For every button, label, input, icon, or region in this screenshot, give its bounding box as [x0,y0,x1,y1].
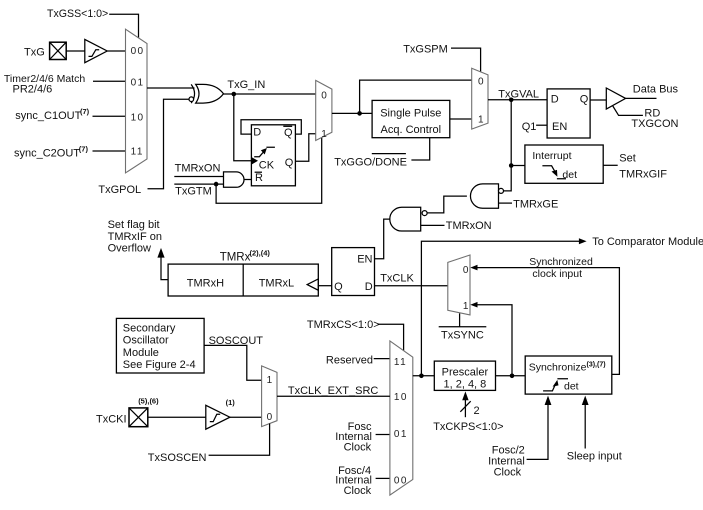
svg-text:Secondary: Secondary [123,322,176,334]
wire buffer to mux M1 input 00 [107,50,125,52]
wire AND G2 output to flip-flop U3 R [244,179,251,181]
AND gate G4 timer enable [390,207,427,231]
svg-text:(7): (7) [79,144,89,153]
wire TxGSPM to mux M3 select [451,48,481,71]
svg-text:TxCLK_EXT_SRC: TxCLK_EXT_SRC [288,385,379,397]
svg-text:Overflow: Overflow [108,243,151,255]
node mux M5 output junction [419,374,424,379]
wire Fosc internal clock to mux M5 input 01 [376,434,390,436]
label Synchronized clock input [529,256,593,280]
wire XOR output TxG_IN to mux M2 input 0 [224,93,316,95]
svg-text:Single Pulse: Single Pulse [380,107,441,119]
wire Fosc/2 clock arrow into synchronize U10 [527,396,552,460]
svg-text:0: 0 [321,91,328,102]
wire SOSCOUT to mux M4 input 1 [204,345,262,380]
wire sync_C1OUT to mux M1 input 10 [93,115,126,117]
mux M6 sync select [448,255,470,315]
wire mux M5 output to prescaler U9 [413,375,435,377]
svg-text:TxCKPS<1:0>: TxCKPS<1:0> [433,421,503,433]
svg-text:(7): (7) [80,107,90,116]
mux M3 single pulse mode select [472,68,488,129]
svg-text:01: 01 [131,77,145,88]
node prescaler output junction [510,374,515,379]
wire TxCLK to comparator module [421,238,586,375]
svg-text:TxGTM: TxGTM [175,186,212,198]
label TMRx(2),(4) [220,249,271,264]
svg-text:TMRxON: TMRxON [446,220,492,232]
svg-text:See Figure 2-4: See Figure 2-4 [123,359,196,371]
pin TxCKI [129,408,148,427]
wire TMRxCS select to mux M5 [378,324,404,351]
svg-text:TMRxGE: TMRxGE [513,198,558,210]
wire TxGVAL down to NAND G3 bubble [504,100,512,191]
node TxGVAL junction [509,98,514,103]
NAND gate G3 gate enable [470,184,503,208]
svg-text:clock input: clock input [532,268,582,280]
svg-text:0: 0 [267,412,274,423]
buffer U12 schmitt TxCKI [206,405,230,429]
svg-text:1: 1 [267,375,274,386]
svg-text:Set flag bit: Set flag bit [108,219,160,231]
svg-text:TMRx: TMRx [220,252,251,264]
svg-text:0: 0 [463,265,470,276]
wire RD TXGCON enable to buffer U7 [613,106,643,115]
svg-text:D: D [551,93,559,105]
pin TxG [50,42,67,59]
wire TxGGO/DONE to Single Pulse U4 [411,138,429,160]
wire TxGTM to mux M2 select [216,137,322,203]
wire TMRxH overflow arrow [157,248,168,280]
wire Reserved to mux M5 input 11 [374,358,390,360]
node mux M2 output junction [357,111,362,116]
label Fosc/2 Internal Clock [488,445,525,479]
svg-text:1: 1 [463,301,470,312]
wire TxSOSCEN select to mux M4 [209,424,270,456]
box U6 interrupt detect [525,145,603,183]
svg-text:det: det [564,381,579,393]
node TxGVAL interrupt branch [509,163,514,168]
svg-text:TxGSS<1:0>: TxGSS<1:0> [47,8,108,20]
open arrow into TMRxL [307,279,318,290]
svg-text:Module: Module [123,347,159,359]
wire synchronize U10 output to mux M6 input 0 [470,265,619,375]
svg-text:EN: EN [357,254,372,266]
label TxSYNC overline [439,327,487,342]
box U4 Single Pulse Acq. Control [372,100,450,137]
svg-text:Prescaler: Prescaler [442,366,489,378]
svg-text:det: det [562,169,577,181]
label Fosc Internal Clock [335,421,372,453]
wire flip-flop U3 Q to mux M2 input 1 [295,134,315,161]
mux M2 gate toggle select [316,80,332,140]
wire flip-flop U5 Q to buffer U7 [590,99,606,101]
svg-text:Q: Q [285,157,294,169]
wire TxGSS select to mux M1 [109,14,138,38]
svg-text:Q1: Q1 [522,121,537,133]
svg-text:TxGSPM: TxGSPM [403,43,448,55]
flip-flop U5 TxGVAL latch [547,89,590,138]
buffer U2 schmitt TxG [85,39,107,62]
svg-text:11: 11 [394,357,407,368]
svg-text:Synchronized: Synchronized [529,256,593,268]
svg-text:Clock: Clock [494,466,522,478]
node TxGTM junction [214,182,219,187]
wire buffer U7 output to data bus [626,97,657,99]
wire mux M4 output TxCLK_EXT_SRC to mux M5 input 10 [277,395,390,397]
svg-text:Set: Set [619,152,636,164]
svg-text:TMRxON: TMRxON [175,162,221,174]
svg-text:TxCLK: TxCLK [380,273,414,285]
svg-text:(3),(7): (3),(7) [587,361,606,368]
label Timer2/4/6 Match PR2/4/6 [4,73,85,95]
svg-text:TxSYNC: TxSYNC [441,330,484,342]
svg-text:TXGCON: TXGCON [631,118,678,130]
wire TxCKI pin to buffer [148,416,206,418]
box U11 secondary oscillator module [116,318,204,373]
wire TxG pin to buffer [66,50,85,52]
svg-text:TxG_IN: TxG_IN [227,79,265,91]
wire latch U8 Q to TMRxL [318,285,331,287]
svg-text:R: R [255,172,263,184]
svg-text:TMRxIF on: TMRxIF on [108,231,162,243]
svg-text:(2),(4): (2),(4) [250,249,271,258]
svg-text:00: 00 [131,46,145,57]
svg-text:Q: Q [334,281,343,293]
wire sync_C2OUT to mux M1 input 11 [93,150,126,152]
wire Timer2/4/6 match to mux M1 input 01 [93,80,126,82]
svg-text:1: 1 [478,114,485,125]
svg-text:EN: EN [552,121,567,133]
svg-text:D: D [253,127,261,139]
wire flip-flop U3 D to Qbar feedback [241,120,301,134]
svg-text:TxSOSCEN: TxSOSCEN [148,452,207,464]
svg-text:01: 01 [394,429,408,440]
mux M5 timer clock source select [390,341,413,495]
svg-text:2: 2 [474,405,480,417]
svg-text:TMRxGIF: TMRxGIF [619,168,667,180]
svg-text:Q: Q [284,127,293,139]
svg-text:Interrupt: Interrupt [532,150,571,162]
wire prescaler output to mux M6 input 1 [470,302,512,376]
svg-text:10: 10 [131,113,145,124]
wire Q1 to flip-flop U5 EN [536,124,547,126]
flip-flop U3 gate toggle [251,125,295,186]
node TxG_IN junction [232,92,237,97]
label RD TXGCON [631,108,678,130]
wire mux M1 output to XOR G1 [147,87,195,89]
svg-text:TxG: TxG [24,47,45,59]
svg-text:Clock: Clock [344,441,372,453]
wire mux M2 output to mux M3 input 0 [360,80,472,113]
svg-text:TMRxL: TMRxL [259,277,294,289]
wire buffer U12 to mux M4 input 0 [230,416,262,418]
XOR gate G1 polarity [189,84,224,103]
svg-text:Synchronize: Synchronize [529,361,587,373]
svg-text:Clock: Clock [344,485,372,497]
svg-text:Reserved: Reserved [326,355,373,367]
svg-text:TMRxCS<1:0>: TMRxCS<1:0> [307,319,380,331]
label sync_C1OUT(7) [15,107,89,122]
wire TxSYNC select to mux M6 [459,313,461,326]
wire NAND G3 output to AND G4 bubble [427,196,467,213]
svg-text:Acq. Control: Acq. Control [381,124,442,136]
svg-text:1: 1 [321,129,328,140]
svg-text:Oscillator: Oscillator [123,335,169,347]
label TxGGO/DONE overline [334,154,407,169]
wire Single Pulse U4 output to mux M3 input 1 [450,118,472,120]
register TMRxH TMRxL [168,264,318,296]
svg-text:TxCKI: TxCKI [96,414,127,426]
svg-text:00: 00 [394,475,408,486]
svg-text:CK: CK [259,159,275,171]
wire mux M2 output to Single Pulse U4 [332,112,372,114]
svg-text:11: 11 [131,147,144,158]
label Set TMRxGIF [619,152,667,180]
wire mux M3 output TxGVAL to flip-flop U5 D [488,99,547,101]
wire TxCKPS select arrow into prescaler [460,391,470,417]
svg-text:(1): (1) [226,398,236,407]
svg-text:TxGVAL: TxGVAL [498,89,539,101]
svg-text:sync_C1OUT: sync_C1OUT [15,110,81,122]
buffer U7 data bus tri-state [606,88,625,109]
wire TMRxGE to NAND G3 [499,202,513,204]
mux M4 external clock select [262,366,277,427]
svg-text:PR2/4/6: PR2/4/6 [13,83,53,95]
svg-text:Sleep input: Sleep input [567,451,622,463]
wire TxCLK from mux M6 output to latch U8 D [375,285,448,287]
wire Sleep input arrow into synchronize U10 [582,396,589,449]
wire TxGPOL to XOR G1 lower input [148,99,189,189]
mux M1 timer gate source select [126,29,148,173]
wire AND G4 output to latch U8 EN [375,219,390,259]
svg-text:10: 10 [394,392,408,403]
wire TMRxON to AND G4 [421,224,445,226]
box U9 prescaler [434,361,495,391]
wire TxGTM to AND G2 [174,183,223,185]
wire TMRxON to AND G2 [174,176,223,178]
wire interrupt box U6 output to Set TMRxGIF [603,164,618,166]
svg-text:sync_C2OUT: sync_C2OUT [14,147,80,159]
svg-text:TxGPOL: TxGPOL [98,184,141,196]
wire Fosc/4 internal clock to mux M5 input 00 [376,477,390,479]
svg-text:Q: Q [580,93,589,105]
svg-text:0: 0 [478,76,485,87]
svg-text:TMRxH: TMRxH [187,277,224,289]
wire TxG_IN to flip-flop U3 CK [234,94,252,161]
wire TxGVAL to interrupt box U6 [511,165,525,167]
wire prescaler U9 output to synchronize U10 [496,375,526,377]
svg-text:TxGGO/DONE: TxGGO/DONE [334,156,407,168]
svg-text:D: D [365,281,373,293]
svg-text:To Comparator Module: To Comparator Module [592,236,703,248]
svg-text:Data Bus: Data Bus [633,83,679,95]
svg-text:1, 2, 4, 8: 1, 2, 4, 8 [443,379,486,391]
label Set flag bit TMRxIF on Overflow [108,219,162,255]
label Fosc/4 Internal Clock [335,465,372,497]
AND gate G2 [224,172,245,187]
label sync_C2OUT(7) [14,144,88,159]
svg-text:(5),(6): (5),(6) [138,397,159,406]
box U10 synchronize [525,356,612,394]
latch U8 timer clock enable [332,248,375,296]
